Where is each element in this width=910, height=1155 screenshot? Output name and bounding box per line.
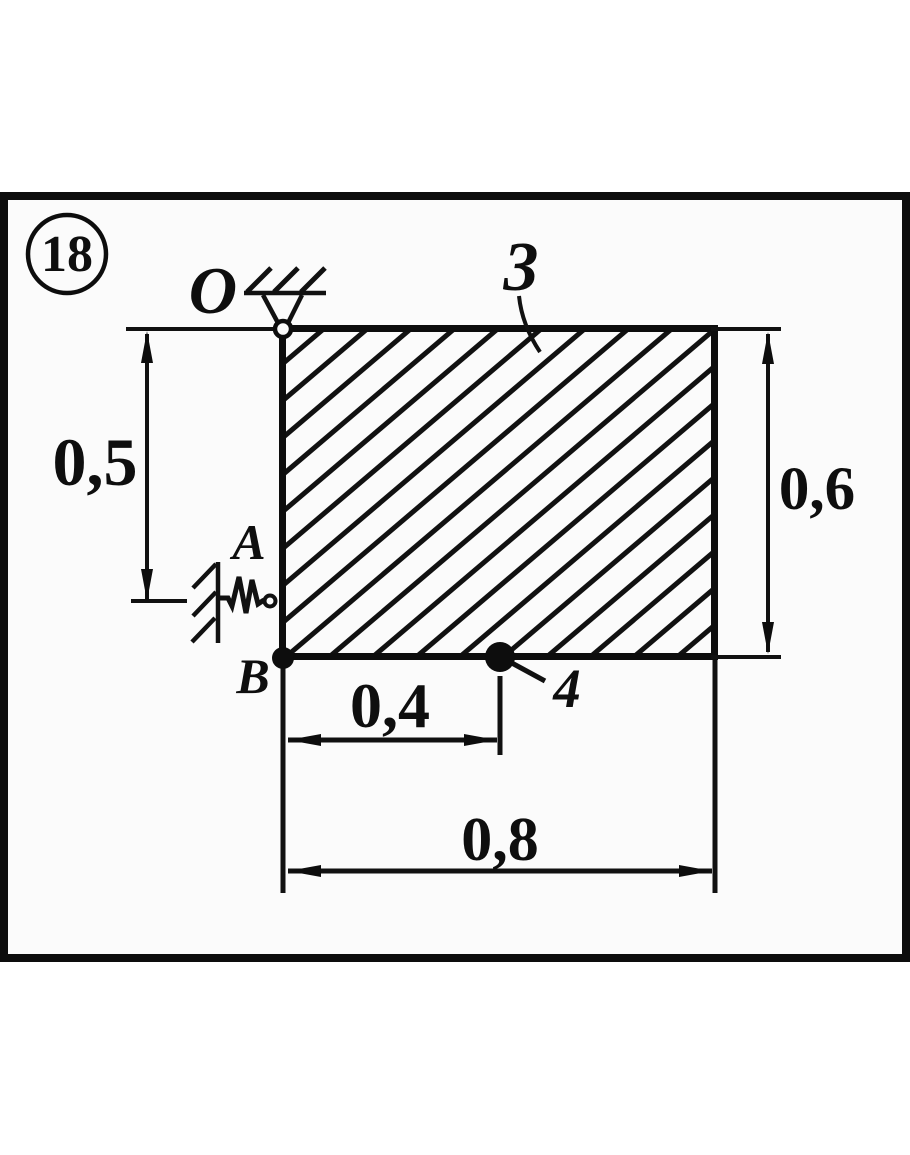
svg-text:0,5: 0,5 [53,424,138,500]
svg-text:0,8: 0,8 [461,806,539,874]
svg-text:O: O [189,254,237,328]
svg-text:0,4: 0,4 [350,670,430,741]
svg-text:B: B [235,648,269,704]
svg-text:4: 4 [552,658,581,719]
svg-text:18: 18 [41,226,93,283]
svg-text:A: A [229,514,265,570]
svg-text:0,6: 0,6 [779,456,855,523]
svg-text:3: 3 [503,229,539,306]
